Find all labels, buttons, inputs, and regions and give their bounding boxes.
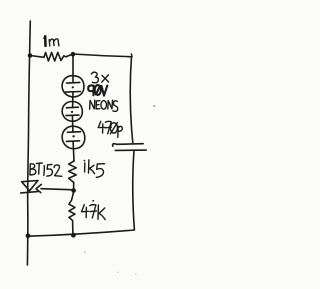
node: bottom left junction xyxy=(26,233,31,238)
wire: neon2 to neon3 xyxy=(71,115,74,132)
speckle xyxy=(153,105,155,107)
speckle xyxy=(84,252,86,254)
label 1k5 xyxy=(84,160,105,178)
resistor R 1k5 zigzag xyxy=(69,161,77,190)
gate arrowhead xyxy=(36,184,41,192)
wire: top-right corner overshoot xyxy=(130,54,133,57)
neon lamp 2 xyxy=(62,101,82,121)
wire: left vertical rail xyxy=(27,21,30,265)
speckle xyxy=(117,272,118,273)
node: gate junction xyxy=(71,188,76,193)
capacitor C 470p bottom plate xyxy=(115,149,146,151)
thyristor cathode bar xyxy=(21,192,38,193)
label 90V xyxy=(88,85,107,96)
neon lamp 1 xyxy=(62,76,84,97)
neon lamp 3 xyxy=(62,126,85,149)
capacitor C 470p top plate xyxy=(113,144,144,147)
label BT152 xyxy=(30,163,62,176)
node: junction top-left xyxy=(28,53,33,58)
thyristor Q BT152 triangle xyxy=(22,181,38,191)
resistor R 1M zigzag xyxy=(44,52,66,61)
node: bottom middle junction xyxy=(71,233,76,238)
label 470p xyxy=(98,121,122,137)
label 3 x xyxy=(91,72,108,83)
wire: neon1 to neon2 xyxy=(72,92,74,108)
speckle xyxy=(135,274,136,275)
wire: right vertical upper xyxy=(130,57,133,143)
label 1m xyxy=(44,36,59,46)
resistor R 47k lead + zigzag xyxy=(69,193,75,236)
wire: lead to neon 1 xyxy=(72,56,74,83)
wire: bottom rail xyxy=(28,230,134,236)
wire: resistor to top-right corner xyxy=(66,54,132,57)
wire: right vertical lower xyxy=(133,151,135,230)
label NEONS xyxy=(90,100,118,111)
node: junction neon branch xyxy=(71,52,76,57)
wire: neon3 to R 1k5 xyxy=(72,141,75,161)
wire: top rail to resistor xyxy=(30,56,44,58)
wire: gate wire to thyristor xyxy=(41,189,74,190)
label 47k xyxy=(82,200,106,220)
